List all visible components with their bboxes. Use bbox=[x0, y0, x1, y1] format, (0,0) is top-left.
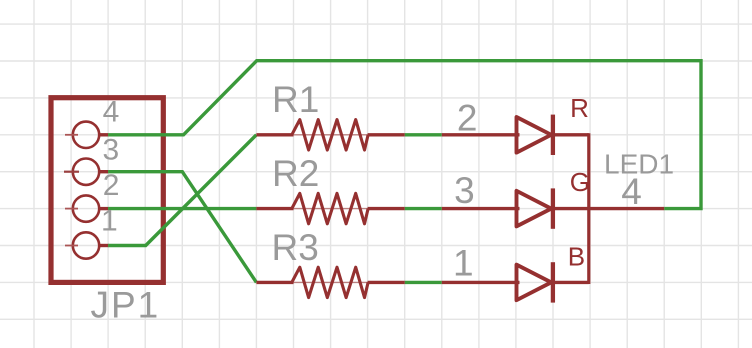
LED1 pin number 3 bbox=[454, 170, 475, 211]
LED1 pin number 4 bbox=[621, 171, 642, 212]
svg-text:1: 1 bbox=[453, 243, 474, 284]
wire R3 to LED B anode bbox=[405, 281, 442, 284]
resistor R1 bbox=[256, 120, 404, 150]
resistor R1 label bbox=[272, 79, 319, 120]
resistor R2 label bbox=[272, 153, 319, 194]
LED1 cathode bus bbox=[587, 133, 590, 284]
svg-text:3: 3 bbox=[454, 170, 475, 211]
connector JP1 body bbox=[51, 98, 163, 283]
svg-text:3: 3 bbox=[103, 133, 120, 166]
JP1 pin number 2 bbox=[103, 169, 120, 202]
LED1 refdes label bbox=[604, 149, 674, 180]
JP1 pin number 1 bbox=[101, 205, 118, 238]
wire net pin1 to R1 bbox=[108, 135, 256, 246]
JP1 pin number 4 bbox=[103, 95, 120, 128]
JP1 pin 1 pad bbox=[65, 232, 108, 258]
wire R2 to LED G anode bbox=[405, 207, 442, 210]
svg-text:R3: R3 bbox=[272, 227, 319, 268]
svg-text:1: 1 bbox=[101, 205, 118, 238]
svg-text:G: G bbox=[570, 167, 590, 197]
svg-text:4: 4 bbox=[103, 95, 120, 128]
svg-text:R1: R1 bbox=[272, 79, 319, 120]
wire net pin3 to R3 bbox=[108, 172, 256, 283]
wire net pin4 to LED1 common bbox=[108, 61, 701, 209]
LED1 pin name R bbox=[570, 93, 589, 123]
JP1 pin 4 pad bbox=[65, 122, 108, 148]
JP1 pin 2 pad bbox=[65, 195, 108, 221]
JP1 refdes label bbox=[91, 285, 161, 326]
svg-text:R2: R2 bbox=[272, 153, 319, 194]
svg-text:JP1: JP1 bbox=[91, 285, 161, 326]
resistor R3 bbox=[256, 267, 404, 297]
LED LED1 blue diode bbox=[442, 262, 589, 302]
LED LED1 green diode bbox=[442, 188, 664, 228]
JP1 pin 3 pad bbox=[64, 159, 108, 185]
LED1 pin number 1 bbox=[453, 243, 474, 284]
svg-text:R: R bbox=[570, 93, 589, 123]
resistor R3 label bbox=[272, 227, 319, 268]
wire R1 to LED R anode bbox=[405, 133, 442, 136]
resistor R2 bbox=[256, 193, 404, 223]
svg-text:2: 2 bbox=[457, 98, 478, 139]
svg-text:2: 2 bbox=[103, 169, 120, 202]
LED1 pin name B bbox=[568, 242, 585, 272]
LED LED1 red diode bbox=[442, 115, 589, 155]
svg-text:4: 4 bbox=[621, 171, 642, 212]
LED1 pin number 2 bbox=[457, 98, 478, 139]
LED1 pin name G bbox=[570, 167, 590, 197]
JP1 pin number 3 bbox=[103, 133, 120, 166]
svg-text:B: B bbox=[568, 242, 585, 272]
wire net pin2 to R2 bbox=[108, 207, 256, 210]
